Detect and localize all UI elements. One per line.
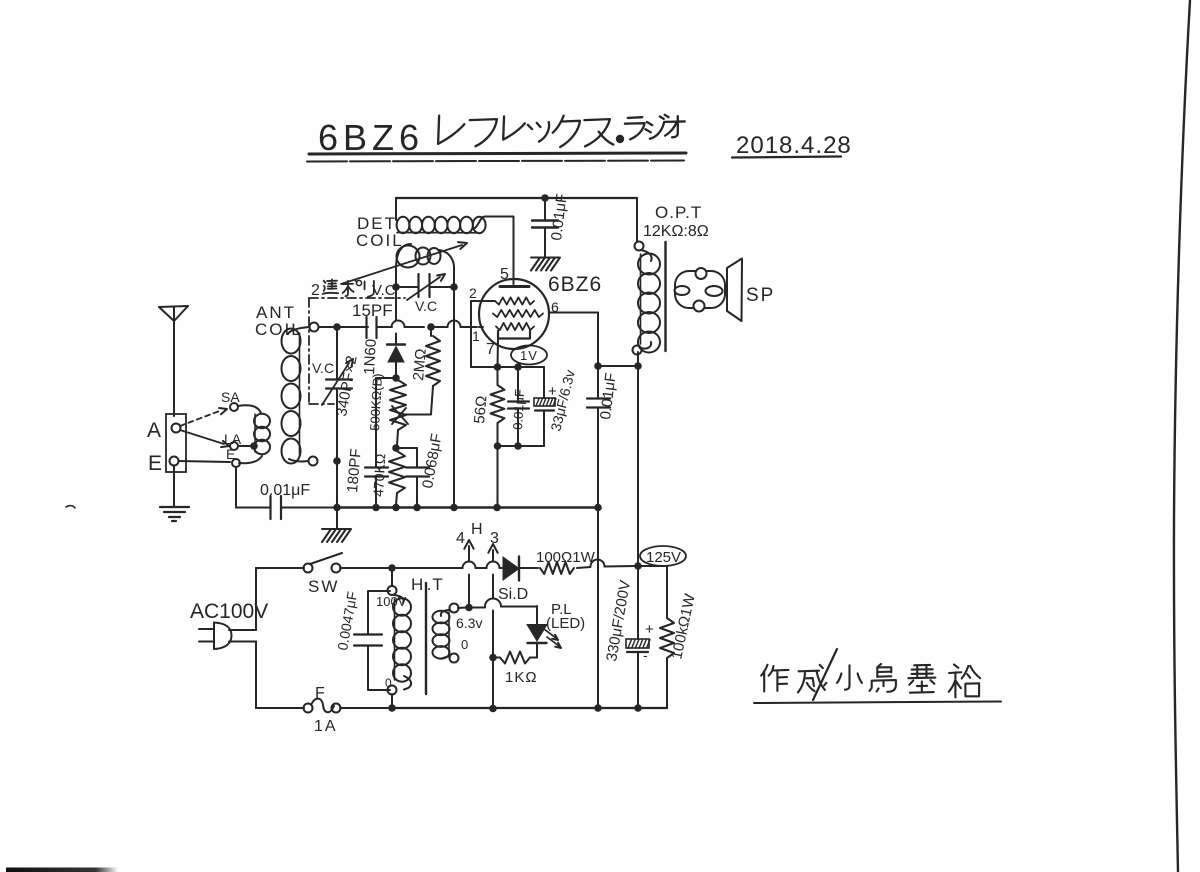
svg-text:0.01μF: 0.01μF bbox=[510, 389, 527, 431]
node LA bbox=[230, 442, 238, 450]
svg-text:E: E bbox=[148, 452, 162, 475]
svg-text:O.P.T: O.P.T bbox=[655, 203, 702, 222]
svg-text:+: + bbox=[645, 621, 654, 638]
node ant top bbox=[310, 323, 319, 332]
tube 6BZ6 envelope U1 bbox=[479, 279, 549, 349]
node pot bottom bbox=[392, 444, 400, 452]
resistor 100K ohm 1W bleeder bbox=[660, 566, 699, 708]
OPT core bbox=[664, 242, 666, 351]
node VC2 left bbox=[392, 283, 400, 291]
node ant bottom bbox=[309, 457, 318, 466]
svg-text:2018.4.28: 2018.4.28 bbox=[736, 132, 852, 159]
capacitor 15PF bbox=[352, 301, 393, 338]
resistor 1K ohm bbox=[493, 652, 538, 687]
wire SW rail across with hops bbox=[396, 562, 502, 568]
svg-text:1A: 1A bbox=[314, 718, 338, 735]
grid row 1 bbox=[471, 297, 534, 304]
diode Si.D bbox=[498, 557, 538, 604]
wire pin2 down to cathode rail bbox=[470, 301, 472, 367]
wire B+ node to OPT bbox=[598, 352, 642, 370]
plate electrode bbox=[500, 285, 529, 288]
svg-text:6.3v: 6.3v bbox=[456, 615, 482, 631]
wire VC2 left down to diode bbox=[395, 287, 397, 344]
125V measured label bbox=[640, 546, 686, 566]
date 2018.4.28 bbox=[732, 132, 852, 159]
svg-text:SA: SA bbox=[221, 389, 240, 405]
ground at E terminal bbox=[160, 466, 189, 521]
wire plug to SW bbox=[256, 568, 304, 630]
HT core bbox=[425, 583, 427, 694]
wire pin6 to B+ node bbox=[549, 313, 598, 364]
coupling capacitor 0.01uF antenna bbox=[236, 467, 334, 519]
signature sakusei Kojima Motohiro bbox=[754, 649, 1001, 703]
svg-text:470KΩ: 470KΩ bbox=[370, 453, 388, 497]
svg-text:(LED): (LED) bbox=[546, 615, 585, 632]
ground symbol plate bypass bbox=[531, 257, 559, 259]
svg-text:12KΩ:8Ω: 12KΩ:8Ω bbox=[643, 223, 709, 240]
svg-text:SW: SW bbox=[308, 577, 339, 596]
OPT primary winding bbox=[633, 242, 661, 355]
svg-text:6BZ6: 6BZ6 bbox=[548, 273, 602, 296]
svg-text:2MΩ: 2MΩ bbox=[410, 348, 430, 381]
svg-text:6BZ6: 6BZ6 bbox=[318, 117, 424, 158]
resistor 470K ohm bbox=[370, 451, 405, 505]
wire plug to fuse bbox=[256, 642, 304, 709]
node B+ rail end bbox=[594, 504, 602, 512]
diode 1N60 bbox=[361, 339, 405, 376]
hop over ground line bbox=[591, 560, 636, 567]
ANT coil secondary bbox=[282, 327, 310, 464]
potentiometer 500K(B) bbox=[367, 373, 431, 445]
svg-text:7: 7 bbox=[486, 341, 495, 358]
wire plate top cap bbox=[513, 217, 515, 285]
variable capacitor VC2 bbox=[396, 274, 454, 314]
measured node 1V bbox=[511, 346, 547, 365]
svg-text:0: 0 bbox=[385, 676, 392, 690]
svg-text:3: 3 bbox=[490, 530, 499, 547]
svg-text:1: 1 bbox=[472, 328, 480, 344]
wire fuse to transformer bbox=[340, 707, 388, 709]
output transformer OPT labels bbox=[643, 203, 709, 240]
cathode electrode bbox=[498, 331, 530, 339]
wire E terminal to E tag bbox=[179, 461, 230, 462]
svg-text:Si.D: Si.D bbox=[498, 586, 528, 603]
wire VC1 bottom bbox=[336, 390, 338, 458]
pilot lamp P.L LED bbox=[473, 599, 585, 658]
ANT COIL label bbox=[255, 303, 303, 339]
fuse F 1A bbox=[304, 685, 341, 735]
svg-text:1V: 1V bbox=[520, 348, 538, 363]
node top cap junction bbox=[541, 194, 549, 202]
svg-text:56Ω: 56Ω bbox=[471, 395, 490, 424]
top B+ rail wire bbox=[396, 197, 637, 199]
svg-text:SP: SP bbox=[746, 285, 775, 306]
svg-text:100Ω1W: 100Ω1W bbox=[536, 549, 596, 566]
svg-text:A: A bbox=[147, 419, 161, 442]
node SA bbox=[230, 403, 238, 411]
wire grid line 15PF to 2M node, hop over diode line bbox=[392, 321, 425, 328]
label 2-gang poly VC bbox=[311, 279, 396, 299]
variable capacitor VC1 340PFx2 bbox=[312, 359, 353, 405]
svg-text:0: 0 bbox=[461, 637, 468, 652]
svg-text:5: 5 bbox=[500, 266, 509, 283]
svg-text:V.C: V.C bbox=[415, 298, 437, 314]
cathode rail wire bbox=[471, 363, 544, 371]
resistor 56 ohm cathode bbox=[471, 367, 504, 444]
svg-text:15PF: 15PF bbox=[352, 301, 393, 320]
grid row 3 bbox=[496, 323, 534, 330]
grid row 2 bbox=[493, 310, 543, 317]
cathode bottom wire bbox=[494, 442, 544, 505]
capacitor 0.01uF B+ bypass bbox=[587, 366, 620, 505]
wire 6.3V to heater node bbox=[458, 607, 466, 610]
capacitor 0.01uF cathode bbox=[508, 367, 529, 444]
DET coil primary (plate winding) bbox=[396, 199, 513, 233]
wire ant bottom to rail bbox=[336, 464, 338, 507]
heater lead H3 (0V) bbox=[488, 530, 499, 708]
wire 125V node to bleeder bbox=[638, 565, 667, 567]
svg-text:V.C: V.C bbox=[372, 282, 396, 299]
DET coil tuning secondary with core arrow bbox=[396, 244, 454, 284]
terminal box A E bbox=[147, 414, 186, 475]
svg-text:H: H bbox=[471, 521, 483, 538]
svg-text:1KΩ: 1KΩ bbox=[505, 669, 538, 686]
svg-text:V.C: V.C bbox=[312, 360, 334, 376]
ground symbol under rail bbox=[322, 508, 351, 543]
wire pin7 to cathode rail bbox=[497, 339, 500, 368]
capacitor 0.01uF plate bypass bbox=[532, 193, 571, 257]
ground rail detector bbox=[333, 504, 598, 512]
wire ground rail down to PSU bbox=[597, 508, 599, 709]
antenna bbox=[159, 306, 188, 416]
node VC2 right bbox=[450, 283, 458, 291]
svg-text:125V: 125V bbox=[646, 549, 681, 566]
electrolytic 330uF/200V bbox=[603, 566, 654, 708]
node LED return bbox=[489, 654, 497, 662]
svg-text:4: 4 bbox=[456, 530, 465, 547]
svg-text:LA: LA bbox=[224, 431, 242, 447]
HT primary winding bbox=[376, 568, 411, 708]
title text 6BZ6 reflex radio bbox=[307, 115, 686, 162]
wire SW to transformer bbox=[340, 567, 388, 569]
capacitor 0.068uF bbox=[396, 432, 446, 505]
capacitor 0.0047uF line filter bbox=[334, 590, 390, 690]
svg-text:0.01μF: 0.01μF bbox=[260, 482, 310, 499]
node diode out bbox=[392, 374, 400, 382]
electrolytic 33uF/6.3V cathode bbox=[534, 367, 578, 446]
resistor 100 ohm 1W bbox=[536, 549, 596, 574]
resistor 2M ohm bbox=[410, 327, 440, 414]
svg-text:2: 2 bbox=[469, 285, 477, 301]
svg-text:-: - bbox=[643, 647, 648, 663]
svg-text:F: F bbox=[315, 685, 325, 702]
svg-text:1N60: 1N60 bbox=[361, 339, 380, 376]
wire B+ feed down to 125V bbox=[637, 366, 639, 563]
node E2 bbox=[232, 459, 240, 467]
node 125V bbox=[634, 562, 642, 570]
svg-text:2: 2 bbox=[311, 282, 320, 299]
wire VC2 right line down to rail (det ground) bbox=[453, 290, 455, 504]
wire ant top to grid line bbox=[319, 326, 368, 328]
svg-text:100V: 100V bbox=[376, 594, 407, 609]
heater lead H4 bbox=[456, 530, 474, 608]
svg-text:COIL: COIL bbox=[356, 231, 404, 250]
wire VC1 vertical top bbox=[336, 330, 338, 378]
wire top rail to OPT bbox=[636, 198, 638, 242]
DET COIL label bbox=[356, 214, 404, 250]
speaker SP bbox=[675, 259, 776, 322]
node screen B+ bbox=[594, 362, 602, 370]
PSU bottom rail bbox=[392, 704, 667, 712]
ANT coil primary bbox=[238, 405, 270, 463]
svg-text:H .T: H .T bbox=[411, 575, 444, 594]
dashed gang box 2-gang poly VC bbox=[309, 298, 405, 404]
AC plug bbox=[199, 623, 256, 650]
wire 2M node to tube grid, hop over det ground line bbox=[431, 321, 487, 328]
switch arrows SA / LA from A bbox=[180, 389, 242, 462]
capacitor 180PF bbox=[344, 378, 396, 505]
HT secondary winding 6.3V bbox=[433, 604, 483, 663]
switch SW bbox=[304, 553, 343, 596]
core adjust arrow bbox=[341, 242, 467, 284]
